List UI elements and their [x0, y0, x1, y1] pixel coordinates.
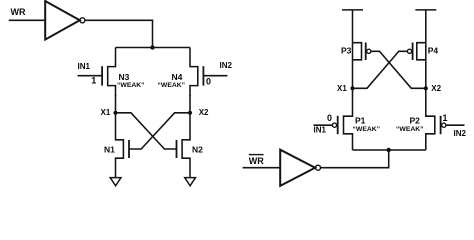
transistor N1	[116, 113, 130, 178]
svg-text:IN2: IN2	[220, 61, 233, 70]
transistor N3	[102, 48, 115, 97]
wire	[129, 113, 190, 149]
junction	[387, 148, 391, 152]
svg-text:0: 0	[327, 113, 332, 123]
node X2	[424, 84, 442, 93]
ground	[185, 178, 196, 186]
wire	[425, 10, 427, 43]
svg-text:P2: P2	[410, 116, 421, 126]
wire	[321, 150, 389, 168]
node X1	[101, 108, 118, 117]
inverter U2	[280, 150, 320, 186]
svg-text:N3: N3	[119, 72, 130, 82]
svg-text:X1: X1	[337, 84, 347, 93]
transistor P4	[407, 43, 425, 61]
svg-text:1: 1	[91, 75, 96, 85]
svg-text:P3: P3	[341, 46, 352, 56]
svg-text:“WEAK”: “WEAK”	[396, 126, 424, 133]
wire	[371, 51, 426, 88]
svg-text:1: 1	[443, 113, 448, 123]
wire	[78, 75, 103, 77]
wire	[115, 95, 117, 113]
node X1	[337, 84, 355, 93]
svg-text:“WEAK”: “WEAK”	[158, 82, 186, 89]
svg-text:“WEAK”: “WEAK”	[353, 126, 381, 133]
svg-text:N2: N2	[192, 144, 203, 154]
wire	[352, 10, 354, 43]
transistor P3	[353, 43, 371, 61]
wire	[203, 75, 227, 77]
svg-text:IN1: IN1	[78, 62, 91, 71]
power VDD	[342, 9, 363, 11]
svg-text:X2: X2	[431, 84, 441, 93]
svg-text:0: 0	[206, 77, 211, 87]
wire	[353, 149, 426, 151]
node WRB	[249, 155, 264, 166]
svg-text:X2: X2	[199, 108, 209, 117]
wire	[243, 167, 281, 169]
wire	[353, 51, 408, 88]
svg-text:P1: P1	[355, 116, 366, 126]
svg-text:X1: X1	[101, 108, 111, 117]
transistor P2	[426, 88, 446, 150]
svg-text:N4: N4	[172, 72, 183, 82]
wire	[9, 19, 46, 21]
wire	[446, 124, 465, 126]
transistor P1	[332, 88, 352, 150]
svg-text:IN1: IN1	[314, 126, 327, 135]
svg-text:“WEAK”: “WEAK”	[117, 82, 145, 89]
wire	[314, 124, 333, 126]
inverter U1	[45, 1, 85, 40]
wire	[425, 43, 427, 89]
junction	[150, 45, 154, 49]
node X2	[188, 108, 209, 117]
wire	[352, 43, 354, 89]
wire	[85, 20, 153, 47]
svg-text:WR: WR	[11, 7, 26, 17]
wire	[116, 47, 191, 49]
svg-text:WR: WR	[249, 156, 264, 166]
ground	[110, 178, 121, 186]
transistor N2	[177, 113, 191, 178]
svg-text:N1: N1	[104, 144, 115, 154]
transistor N4	[190, 48, 203, 97]
wire	[189, 95, 191, 113]
svg-text:P4: P4	[428, 46, 439, 56]
wire	[116, 113, 177, 149]
power VDD	[415, 9, 436, 11]
svg-text:IN2: IN2	[454, 129, 467, 138]
